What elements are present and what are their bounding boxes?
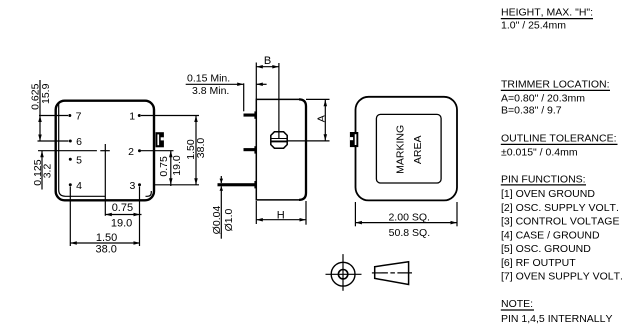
svg-text:38.0: 38.0 xyxy=(95,243,116,255)
svg-text:3.2: 3.2 xyxy=(41,164,53,179)
svg-text:[2] OSC. SUPPLY VOLT.: [2] OSC. SUPPLY VOLT. xyxy=(501,202,619,214)
svg-text:2: 2 xyxy=(128,146,134,158)
svg-text:3.8 Min.: 3.8 Min. xyxy=(192,85,229,97)
svg-text:[5] OSC. GROUND: [5] OSC. GROUND xyxy=(501,243,591,255)
svg-text:TRIMMER LOCATION:: TRIMMER LOCATION: xyxy=(501,79,610,91)
svg-text:A: A xyxy=(316,115,328,122)
svg-text:3: 3 xyxy=(129,180,135,192)
svg-text:1.50: 1.50 xyxy=(96,232,117,244)
svg-text:38.0: 38.0 xyxy=(195,138,207,159)
svg-text:0.75: 0.75 xyxy=(158,156,170,177)
svg-text:1.0" / 25.4mm: 1.0" / 25.4mm xyxy=(501,20,566,32)
svg-text:H: H xyxy=(277,209,285,221)
svg-text:Ø0.04: Ø0.04 xyxy=(211,206,223,235)
svg-text:[1] OVEN GROUND: [1] OVEN GROUND xyxy=(501,188,595,200)
svg-text:0.15 Min.: 0.15 Min. xyxy=(187,73,230,85)
svg-text:6: 6 xyxy=(76,136,82,148)
svg-text:19.0: 19.0 xyxy=(171,155,183,176)
svg-text:2.00 SQ.: 2.00 SQ. xyxy=(388,211,429,223)
svg-text:PIN 1,4,5 INTERNALLY: PIN 1,4,5 INTERNALLY xyxy=(501,313,612,325)
svg-text:[6] RF OUTPUT: [6] RF OUTPUT xyxy=(501,257,576,269)
svg-text:[3] CONTROL VOLTAGE: [3] CONTROL VOLTAGE xyxy=(501,216,619,228)
svg-text:B=0.38" / 9.7: B=0.38" / 9.7 xyxy=(501,104,562,116)
svg-text:A=0.80" / 20.3mm: A=0.80" / 20.3mm xyxy=(501,92,585,104)
svg-text:[7] OVEN SUPPLY VOLT.: [7] OVEN SUPPLY VOLT. xyxy=(501,271,623,283)
svg-text:15.9: 15.9 xyxy=(40,83,52,104)
svg-text:19.0: 19.0 xyxy=(111,218,132,230)
svg-text:7: 7 xyxy=(76,111,82,123)
svg-text:1: 1 xyxy=(129,111,135,123)
svg-text:NOTE:: NOTE: xyxy=(501,298,533,310)
svg-text:MARKING: MARKING xyxy=(394,125,406,174)
svg-text:5: 5 xyxy=(76,154,82,166)
svg-text:4: 4 xyxy=(76,180,82,192)
svg-text:±0.015" / 0.4mm: ±0.015" / 0.4mm xyxy=(501,147,578,159)
svg-text:HEIGHT, MAX. "H":: HEIGHT, MAX. "H": xyxy=(501,7,593,19)
svg-text:0.75: 0.75 xyxy=(112,202,133,214)
svg-text:PIN FUNCTIONS:: PIN FUNCTIONS: xyxy=(501,174,586,186)
svg-text:50.8 SQ.: 50.8 SQ. xyxy=(389,227,430,239)
svg-text:AREA: AREA xyxy=(412,136,424,165)
svg-text:[4] CASE / GROUND: [4] CASE / GROUND xyxy=(501,229,600,241)
svg-text:OUTLINE TOLERANCE:: OUTLINE TOLERANCE: xyxy=(501,133,617,145)
svg-text:Ø1.0: Ø1.0 xyxy=(223,208,235,231)
svg-text:B: B xyxy=(264,55,271,67)
